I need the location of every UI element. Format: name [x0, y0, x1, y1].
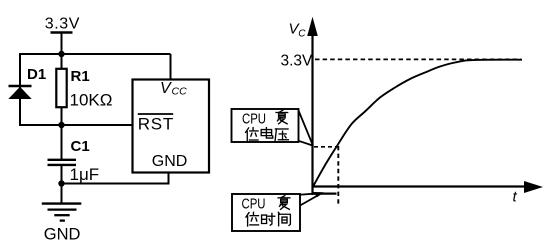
svg-text:3.3V: 3.3V — [281, 52, 314, 69]
svg-text:CPU: CPU — [242, 196, 266, 213]
svg-text:CC: CC — [172, 86, 188, 98]
svg-text:V: V — [160, 80, 172, 97]
svg-text:RST: RST — [138, 114, 174, 133]
svg-text:CPU: CPU — [242, 110, 266, 127]
svg-text:R1: R1 — [71, 68, 90, 85]
svg-text:C: C — [298, 28, 306, 39]
svg-text:10KΩ: 10KΩ — [70, 91, 113, 110]
svg-text:GND: GND — [44, 226, 81, 244]
svg-text:D1: D1 — [27, 66, 46, 83]
svg-text:C1: C1 — [71, 138, 90, 155]
svg-text:t: t — [513, 189, 518, 206]
svg-text:3.3V: 3.3V — [45, 16, 80, 33]
svg-text:1μF: 1μF — [70, 165, 100, 184]
svg-text:GND: GND — [152, 153, 188, 170]
